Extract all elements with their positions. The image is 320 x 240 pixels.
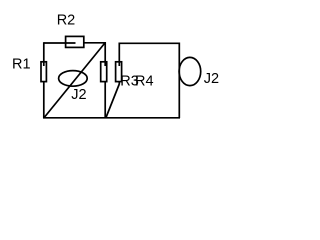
svg-text:R1: R1 [12, 56, 31, 72]
current source J2 ellipse [59, 71, 88, 87]
wire R3 bottom to node F [104, 82, 106, 118]
current source J2 diagonal edge E-B [44, 43, 105, 118]
resistor R1 [41, 62, 46, 82]
resistor R2 [66, 36, 84, 47]
svg-text:J2: J2 [71, 87, 86, 103]
wire R2 right to node B [84, 42, 105, 44]
wire R4 bottom stub [118, 82, 120, 85]
wire node A down into R1 [43, 42, 45, 66]
wire top-left A to R2 center [44, 42, 76, 44]
svg-text:R2: R2 [57, 13, 76, 29]
wire right-loop top C to D [119, 42, 180, 44]
resistor R4 [116, 62, 122, 82]
svg-text:R4: R4 [135, 74, 154, 90]
wire node B down into R3 [104, 42, 106, 66]
resistor R3 [101, 62, 107, 82]
wire node C down into R4 [118, 43, 120, 67]
svg-text:J2: J2 [204, 71, 219, 87]
wire R1 bottom to node E [43, 82, 45, 118]
current source J2 right ellipse [179, 57, 201, 85]
wire bottom net E to G [43, 117, 180, 119]
wire diagonal R4 to node F [106, 84, 120, 118]
wire right edge D to G [178, 43, 180, 119]
